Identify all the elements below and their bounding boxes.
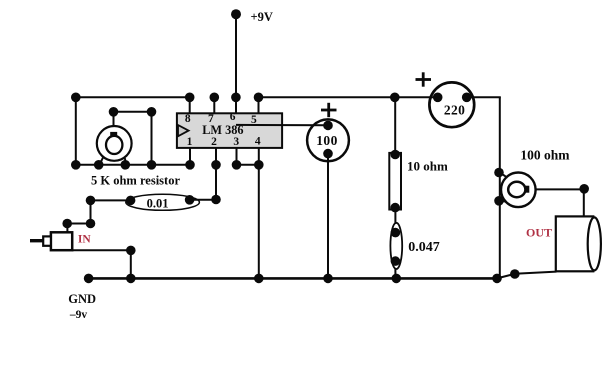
potentiometer R3 inner ring	[508, 182, 525, 197]
wire left rail drop	[75, 97, 77, 165]
node R2 top terminal	[390, 150, 400, 160]
wire input drop	[90, 200, 92, 223]
svg-text:100: 100	[316, 133, 337, 148]
node pin 2 bottom	[211, 160, 221, 170]
node R2 rail junction	[390, 93, 400, 103]
wire C100 negative drop to ground	[327, 154, 329, 279]
node pot 100 top terminal	[494, 168, 504, 178]
wire ground rail	[89, 277, 498, 280]
wire pin 3 stub	[236, 148, 238, 165]
node pot bus left	[71, 160, 81, 170]
speaker SP1 body	[556, 216, 594, 271]
wire pin 6 to C100 plus terminal	[236, 124, 328, 126]
node ground rail left end	[84, 274, 94, 284]
input jack J1 body	[51, 232, 72, 250]
svg-text:5 K ohm resistor: 5 K ohm resistor	[91, 174, 180, 188]
speaker SP1 cone ellipse	[588, 217, 601, 270]
node pot 100 bottom terminal	[494, 196, 504, 206]
wire C0.01 left lead	[91, 199, 132, 201]
capacitor C100 (100 uF) body	[307, 119, 349, 161]
node jack ground junction	[126, 274, 136, 284]
node C0.047 bottom terminal	[391, 256, 401, 266]
node C0.047 ground junction	[392, 274, 402, 284]
node 5K wiper top	[109, 107, 119, 117]
wire 5K pot wiper stub up	[113, 112, 115, 126]
node C100 plus terminal	[323, 121, 333, 131]
potentiometer R1 wiper mark	[110, 132, 117, 136]
wire pin 3 to pin 4 link	[237, 164, 259, 166]
node top rail left corner	[71, 93, 81, 103]
potentiometer R1 inner ring	[106, 136, 122, 154]
wire 5K pot left leg	[100, 158, 104, 165]
svg-text:1: 1	[187, 136, 193, 148]
wire R2 top lead	[394, 97, 396, 153]
wire 5K pot wiper link	[114, 111, 152, 113]
node pin 7 top	[210, 93, 220, 103]
svg-text:100 ohm: 100 ohm	[520, 147, 570, 162]
wire C0.047 to ground	[394, 269, 396, 279]
wire pin 8 stub	[189, 97, 191, 113]
wire pot top terminal stub	[499, 172, 508, 178]
resistor R2 10 ohm body	[389, 153, 401, 210]
capacitor C100 plus sign	[321, 109, 337, 112]
wire 5K pot right leg	[124, 158, 127, 165]
wire C220 output drop	[499, 97, 501, 278]
node C0.047 top terminal	[391, 228, 401, 238]
wire pot wiper to speaker	[535, 188, 584, 190]
wire pin 4 stub and ground drop	[258, 148, 260, 279]
svg-text:220: 220	[444, 102, 465, 117]
capacitor C3 0.047 body	[390, 223, 402, 269]
node pot right leg	[121, 160, 131, 170]
node speaker return junction	[510, 269, 520, 279]
wire jack sleeve drop	[130, 250, 132, 278]
svg-text:7: 7	[208, 113, 214, 125]
potentiometer R1 5K outer body	[97, 126, 132, 161]
wire pin 2 drop to C0.01	[215, 148, 217, 200]
node pin 8 top	[185, 93, 195, 103]
capacitor C220 (220 uF) body	[429, 82, 474, 127]
node 5K wiper link corner	[147, 107, 157, 117]
capacitor C220 plus sign	[416, 78, 432, 81]
svg-text:+9V: +9V	[251, 10, 273, 24]
node pin 2 wire end	[211, 195, 221, 205]
node C100 ground junction	[323, 274, 333, 284]
node C100 minus terminal	[323, 149, 333, 159]
potentiometer R3 wiper mark	[525, 186, 530, 193]
node pin 4 ground junction	[254, 274, 264, 284]
wire pin 1 stub	[189, 148, 191, 165]
svg-text:0.047: 0.047	[408, 240, 440, 255]
svg-text:2: 2	[211, 136, 217, 148]
svg-text:6: 6	[230, 111, 236, 123]
wire pot bottom terminal stub	[499, 200, 507, 203]
wire jack sleeve to ground	[72, 249, 131, 251]
node output drop ground junction	[492, 274, 502, 284]
svg-text:IN: IN	[78, 233, 91, 245]
wire speaker return	[515, 272, 557, 274]
potentiometer R3 100 ohm outer body	[501, 173, 536, 208]
wire R2 to C0.047 link	[394, 210, 396, 224]
wire 5K pot wiper drop	[151, 112, 153, 165]
wire pin 5 stub	[258, 97, 260, 113]
op-amp U1 notch mark	[178, 125, 189, 136]
wire top rail right segment	[467, 96, 501, 98]
svg-text:OUT: OUT	[526, 225, 552, 239]
svg-text:8: 8	[185, 113, 191, 125]
svg-text:–9v: –9v	[69, 309, 88, 321]
svg-text:4: 4	[255, 135, 261, 147]
node C220 right terminal	[462, 93, 472, 103]
node jack tip corner	[62, 219, 72, 229]
wire input link	[67, 223, 91, 225]
node pin 6 top	[231, 93, 241, 103]
node pot left leg	[94, 160, 104, 170]
wire top rail left segment	[76, 96, 189, 98]
node input link corner	[86, 219, 96, 229]
wire speaker feed drop	[583, 189, 585, 217]
svg-text:GND: GND	[68, 292, 96, 306]
node wiper drop junction	[147, 160, 157, 170]
wire speaker return link to ground	[497, 274, 515, 279]
svg-text:0.01: 0.01	[147, 196, 169, 210]
wire top rail middle segment pin5 to C220	[258, 96, 438, 98]
input jack J1 tip	[30, 239, 43, 242]
wire jack tip stub	[66, 224, 68, 233]
node C0.01 left terminal	[126, 196, 136, 206]
svg-text:10 ohm: 10 ohm	[407, 159, 448, 174]
wire C0.01 right lead	[185, 199, 216, 201]
node pin 4 bottom	[254, 160, 264, 170]
wire pin 7 stub	[213, 97, 215, 113]
input jack J1 neck	[43, 236, 51, 245]
node pin 3 bottom	[232, 160, 242, 170]
node pin 1 bottom	[185, 160, 195, 170]
node R2 bottom terminal	[390, 203, 400, 213]
op-amp U1 LM386 body	[177, 113, 282, 148]
capacitor C2 0.01 body	[126, 194, 200, 210]
wire 5K pot bottom bus	[76, 164, 190, 166]
node +9V terminal	[231, 9, 241, 19]
wire +9V supply drop to pin 6	[235, 14, 237, 125]
node C0.01 input junction	[86, 196, 96, 206]
node jack sleeve corner	[126, 246, 136, 256]
node C220 left terminal	[433, 93, 443, 103]
svg-text:3: 3	[233, 136, 239, 148]
node C0.01 right terminal	[185, 195, 195, 205]
node speaker feed corner	[579, 184, 589, 194]
node pin 5 top	[254, 93, 264, 103]
